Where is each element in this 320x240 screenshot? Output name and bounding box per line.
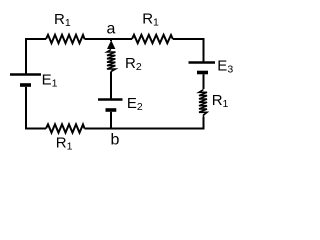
wire top-left segment [26, 38, 46, 40]
svg-text:a: a [107, 21, 116, 38]
wire left vertical upper [25, 38, 27, 74]
resistor R2 vertical zigzag [107, 50, 115, 72]
current arrow at R2 [107, 40, 115, 49]
wire top-middle segment [85, 38, 133, 40]
wire bottom-left segment [26, 128, 46, 130]
wire right vertical upper [203, 38, 205, 62]
resistor R1 right vertical zigzag [199, 90, 207, 118]
battery E1 long plate [10, 73, 41, 75]
battery E3 long plate [189, 61, 216, 63]
junction node a [110, 39, 112, 42]
battery E2 short plate [106, 108, 117, 112]
wire middle vertical below E2 [110, 112, 112, 130]
resistor R1 top-left zigzag [46, 35, 85, 43]
battery E3 short plate [197, 71, 208, 75]
resistor R1 top-right zigzag [132, 35, 173, 43]
wire right vertical lower [203, 117, 205, 130]
svg-text:b: b [111, 132, 120, 149]
resistor R1 bottom zigzag [46, 124, 85, 132]
wire left vertical lower [25, 87, 27, 130]
wire top-right segment [173, 38, 204, 40]
wire bottom-right segment [85, 128, 204, 130]
battery E1 short plate [20, 83, 31, 87]
battery E2 long plate [98, 98, 123, 100]
wire middle vertical between R2 and E2 [110, 72, 112, 100]
wire right vertical between E3 and R1 [203, 74, 205, 89]
